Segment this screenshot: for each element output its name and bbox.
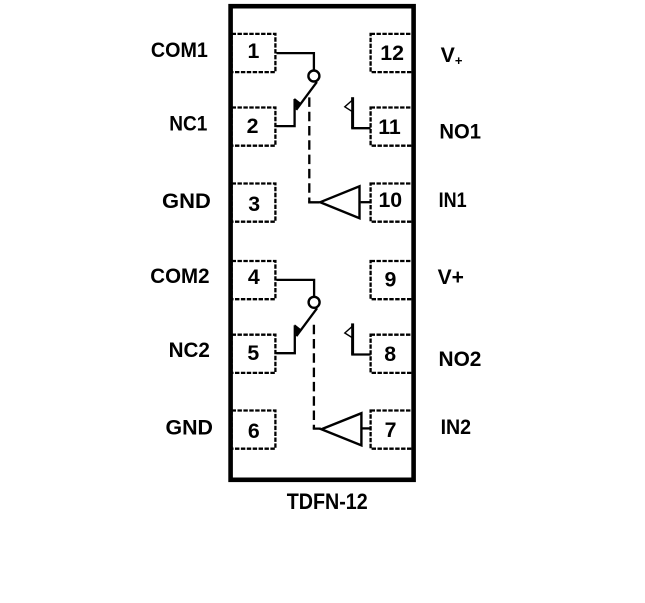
pin 4 pad box xyxy=(232,261,276,299)
inverter U2 triangle xyxy=(321,413,361,445)
svg-text:12: 12 xyxy=(380,41,404,65)
NO1 contact bar xyxy=(351,97,354,128)
svg-text:GND: GND xyxy=(162,189,211,213)
svg-text:8: 8 xyxy=(384,342,396,366)
svg-text:6: 6 xyxy=(248,419,260,443)
svg-text:COM1: COM1 xyxy=(151,38,208,62)
pin 7 pad box xyxy=(371,411,414,449)
svg-text:TDFN-12: TDFN-12 xyxy=(287,489,368,514)
svg-text:9: 9 xyxy=(384,268,396,292)
pin 10 pad box xyxy=(371,184,414,222)
dashed control line S2 elbow to inverter U2 apex xyxy=(314,428,321,429)
wire inverter U1 input to pin10 xyxy=(361,201,371,203)
switch S1 pivot circle xyxy=(308,71,319,82)
svg-text:2: 2 xyxy=(247,114,259,138)
switch S1 arm arrowhead xyxy=(295,98,302,110)
pin 5 pad box xyxy=(232,335,276,373)
svg-text:3: 3 xyxy=(248,192,260,216)
svg-text:V: V xyxy=(441,43,456,67)
pin 3 pad box xyxy=(232,184,276,222)
switch S2 arm xyxy=(296,308,317,336)
switch S1 arm xyxy=(296,82,317,110)
package outline TDFN-12 body xyxy=(231,6,414,480)
dashed control line S2 from inverter U2 xyxy=(313,325,315,429)
svg-text:NO2: NO2 xyxy=(439,347,482,371)
svg-text:GND: GND xyxy=(166,415,214,439)
pin 6 pad box xyxy=(232,411,276,449)
svg-text:IN2: IN2 xyxy=(441,415,472,439)
pin 2 pad box xyxy=(232,108,276,146)
dashed control line S1 elbow to inverter U1 apex xyxy=(309,201,319,202)
NO2 contact bar xyxy=(351,323,354,354)
pin 1 pad box xyxy=(232,34,276,72)
pin 8 pad box xyxy=(371,335,414,373)
svg-text:COM2: COM2 xyxy=(150,264,209,288)
svg-text:4: 4 xyxy=(248,265,260,289)
inverter U1 triangle xyxy=(320,186,359,218)
wire pin2 to switch S1 arm xyxy=(277,99,295,126)
NO1 contact open arrowhead xyxy=(345,101,352,112)
svg-text:7: 7 xyxy=(385,418,397,442)
switch S2 pivot circle xyxy=(309,297,320,308)
wire inverter U2 input to pin7 xyxy=(361,427,370,429)
wire pin1 to switch pivot S1 xyxy=(277,53,314,71)
NO2 contact open arrowhead xyxy=(345,327,352,338)
svg-text:NC1: NC1 xyxy=(169,111,207,135)
svg-text:+: + xyxy=(455,53,463,68)
svg-text:IN1: IN1 xyxy=(439,188,467,212)
wire pin4 to switch pivot S2 xyxy=(277,280,315,297)
wire NO2 contact to pin8 xyxy=(351,353,370,355)
switch S2 arm arrowhead xyxy=(295,324,302,336)
svg-text:NO1: NO1 xyxy=(439,120,481,144)
svg-text:10: 10 xyxy=(378,188,402,212)
pin 9 pad box xyxy=(371,261,414,299)
pin 12 pad box xyxy=(371,34,414,72)
pin 11 pad box xyxy=(371,108,414,146)
dashed control line S1 from inverter U1 xyxy=(308,97,310,202)
wire NO1 contact to pin11 xyxy=(351,127,370,129)
svg-text:1: 1 xyxy=(247,39,259,63)
svg-text:5: 5 xyxy=(247,341,259,365)
wire pin5 to switch S2 arm xyxy=(277,325,295,353)
svg-text:NC2: NC2 xyxy=(169,338,210,362)
svg-text:11: 11 xyxy=(378,115,401,139)
svg-text:V+: V+ xyxy=(438,265,464,289)
